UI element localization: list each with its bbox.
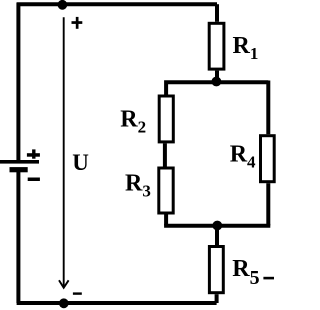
wire R4 branch upper (266, 81, 270, 135)
battery plus label (27, 149, 40, 158)
wire bottom (17, 301, 217, 305)
node dot top (58, 0, 68, 10)
resistor R5 (209, 247, 223, 293)
node dot bottom parallel (212, 221, 222, 231)
node dot below R1 (212, 77, 222, 87)
voltage arrow head (59, 280, 69, 288)
wire parallel top (166, 82, 268, 94)
wire R1 branch lower (215, 71, 219, 83)
wire R1 branch upper (215, 4, 219, 22)
voltage arrow U line (63, 17, 65, 287)
resistor R3 (159, 168, 173, 213)
resistor R1 (209, 23, 224, 69)
wire R4 branch lower (266, 183, 270, 225)
wire left lower (16, 170, 20, 303)
wire top (17, 2, 217, 6)
wire between R2 R3 (163, 143, 167, 166)
battery minus label (28, 178, 40, 182)
resistor R2 (159, 96, 173, 142)
node dot bottom wire (59, 298, 69, 308)
wire left upper (16, 3, 20, 161)
svg-text:U: U (72, 150, 89, 175)
minus label bottom of U (73, 292, 82, 294)
resistor R4 (261, 136, 275, 182)
wire parallel bottom (166, 224, 268, 226)
dash after R5 (263, 277, 274, 280)
battery long plate (0, 160, 39, 164)
plus label top of U (72, 17, 83, 29)
wire R5 branch lower (215, 294, 219, 303)
battery short plate (10, 167, 28, 172)
wire R5 branch upper (215, 226, 219, 246)
wire below R3 (164, 215, 168, 226)
